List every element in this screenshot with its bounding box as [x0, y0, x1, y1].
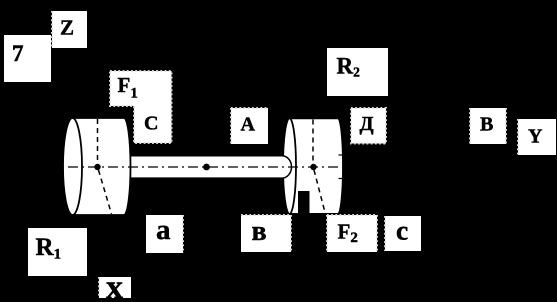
svg-text:Y: Y: [528, 126, 543, 148]
svg-text:Д: Д: [360, 113, 374, 135]
label box R2: [327, 48, 388, 96]
hidden shaft edge ticks at right cylinder right edge: [339, 155, 343, 179]
dashed slanted radius right pulley: [314, 170, 325, 213]
svg-text:а: а: [156, 214, 171, 246]
label box F1 + C (L-shape): [110, 71, 172, 143]
right cylinder (pulley 2) body: [283, 118, 343, 214]
black notch on right cylinder: [298, 191, 310, 215]
svg-text:с: с: [396, 215, 408, 246]
axis centerline (dash-dot): [8, 166, 545, 168]
label box Y: [518, 119, 556, 155]
dashed vertical radius left pulley: [97, 119, 99, 164]
label box R1: [28, 228, 87, 276]
svg-text:C: C: [144, 113, 158, 135]
dashed vertical radius right pulley: [312, 120, 314, 164]
label box a (Cyrillic): [146, 214, 183, 253]
svg-text:B: B: [480, 114, 493, 136]
dashed slanted radius left pulley: [99, 170, 112, 214]
svg-text:7: 7: [12, 41, 24, 66]
label box v (Cyrillic ve): [241, 215, 291, 252]
center dot left pulley: [94, 164, 100, 170]
svg-text:A: A: [241, 114, 256, 136]
label box D (Cyrillic De): [351, 108, 386, 144]
svg-text:Z: Z: [60, 16, 74, 40]
center dot shaft middle: [203, 164, 210, 171]
label box B: [470, 108, 506, 144]
label box 7: [4, 35, 51, 82]
left cylinder (pulley 1) body: [63, 118, 131, 215]
label box c (Cyrillic es): [385, 215, 421, 252]
label box A: [231, 108, 268, 144]
label box F2: [327, 215, 377, 252]
shaft (axle): [124, 156, 292, 178]
center dot right pulley: [310, 164, 316, 170]
svg-text:в: в: [252, 216, 267, 247]
label box X: [99, 269, 131, 302]
svg-text:x: x: [106, 269, 123, 302]
label box Z: [52, 11, 87, 48]
